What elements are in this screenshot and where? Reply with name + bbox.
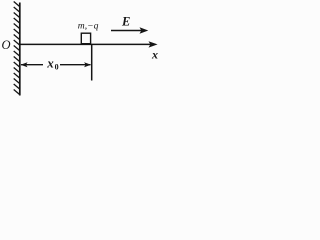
dimension x0 left arrowhead	[21, 62, 28, 67]
wall hatching	[14, 2, 20, 95]
svg-text:0: 0	[55, 63, 59, 72]
x-axis	[20, 43, 151, 45]
x-axis arrowhead	[149, 41, 158, 47]
svg-text:E: E	[121, 15, 130, 29]
dimension x0 right segment	[60, 64, 91, 66]
field arrow E head	[140, 27, 149, 33]
wall	[19, 3, 21, 96]
svg-text:x: x	[151, 48, 158, 62]
dimension x0 right arrowhead	[84, 62, 91, 67]
svg-text:m,−q: m,−q	[78, 20, 99, 31]
svg-text:x: x	[46, 56, 54, 71]
position tick	[91, 45, 93, 81]
dimension x0 left segment	[21, 64, 43, 66]
svg-text:O: O	[2, 38, 11, 52]
field arrow E shaft	[111, 30, 145, 32]
block m,-q	[81, 33, 90, 44]
